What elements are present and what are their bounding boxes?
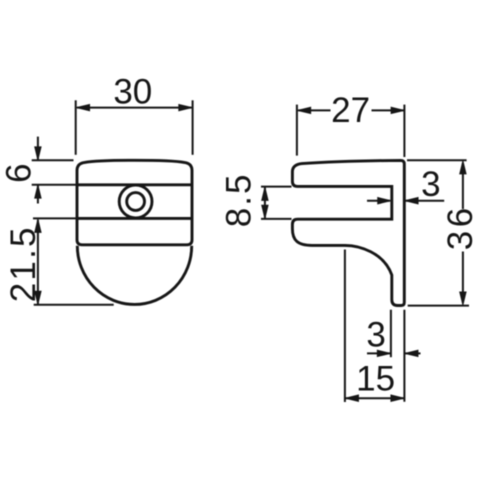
svg-text:3: 3 [421,165,440,204]
svg-text:6: 6 [0,163,39,182]
svg-text:30: 30 [113,73,152,112]
svg-text:21.5: 21.5 [4,225,43,302]
svg-text:27: 27 [331,91,370,130]
svg-text:8.5: 8.5 [220,173,259,228]
svg-text:3: 3 [366,316,385,355]
svg-text:36: 36 [441,204,480,250]
svg-text:15: 15 [356,360,395,399]
